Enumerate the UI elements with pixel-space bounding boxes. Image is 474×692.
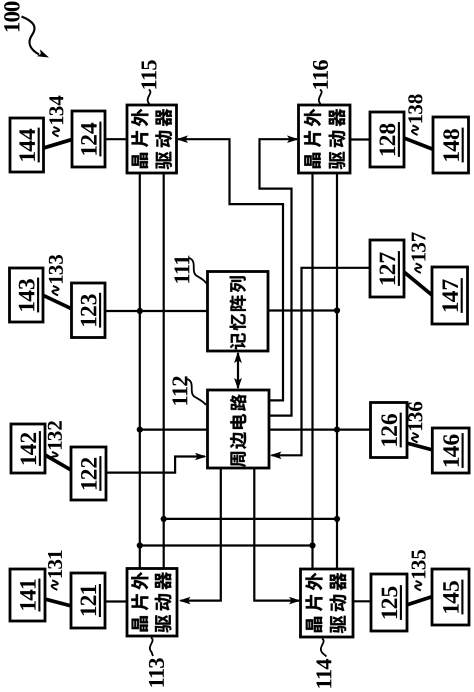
- wire driver 116 to pad 128: [350, 138, 370, 140]
- off-chip driver 113: [127, 569, 177, 637]
- wire pad 123 to memory array 111: [105, 310, 208, 312]
- leader of 113: [150, 638, 153, 657]
- arrowhead into driver 114 left edge: [289, 597, 301, 605]
- wire bus B pin B1 to pin B2: [164, 518, 337, 520]
- label 115: [141, 60, 156, 88]
- wire peripheral 112 bottom to driver 114: [254, 468, 299, 601]
- leader of 114: [321, 639, 327, 657]
- block 143: [10, 268, 44, 322]
- pad 123: [72, 283, 106, 338]
- junction on pin B of 116 at y429: [334, 427, 340, 433]
- label 133: [49, 255, 63, 296]
- wire W1 peripheral 112 right edge to driver 115: [178, 139, 283, 400]
- junction bus B on pin B of 115: [161, 516, 167, 522]
- wire pin B of driver 115 down to driver 113: [163, 173, 165, 569]
- connection 138 between 128 and 148: [404, 138, 434, 150]
- off-chip driver 115: [127, 105, 177, 173]
- arrowhead into 112 right edge from 127: [270, 452, 282, 460]
- block 144: [10, 118, 44, 172]
- wire pad 124 to driver 115: [105, 138, 127, 140]
- block 142: [11, 424, 45, 473]
- leader of 111: [189, 258, 207, 284]
- connection 131 between 141 and 121: [45, 599, 72, 606]
- label 112: [172, 376, 187, 404]
- label 136: [408, 402, 422, 443]
- label 114: [316, 659, 331, 688]
- pad 124: [72, 111, 105, 167]
- junction on pin A of 115 at y429: [137, 427, 143, 433]
- arrowhead into driver 116 left edge: [287, 135, 299, 143]
- wire pad 121 to driver 113: [105, 600, 127, 602]
- wire memory array 111 to pin B of 116: [268, 309, 337, 311]
- label 111: [174, 256, 189, 283]
- label 116: [313, 60, 328, 89]
- block 147: [432, 267, 468, 324]
- pad 126: [371, 403, 408, 458]
- arrowhead down into peripheral 112: [234, 378, 242, 390]
- connection 135 between 125 and 145: [407, 597, 433, 606]
- wire bus C pin A1 to pin A2: [140, 544, 313, 546]
- block 145: [432, 569, 469, 625]
- pad 125: [371, 574, 407, 631]
- connection 136 between 126 and 146: [407, 443, 433, 450]
- wire pad 127 to peripheral 112 right edge: [272, 268, 371, 456]
- arrowhead of 100 leader: [37, 49, 49, 57]
- label 138: [408, 94, 422, 135]
- label 137: [411, 232, 425, 273]
- wire junction A1 to peripheral 112 left edge: [140, 429, 208, 431]
- label 135: [411, 550, 425, 591]
- label 134: [49, 96, 63, 137]
- block 146: [432, 428, 469, 473]
- wire pad 122 to peripheral 112 left edge: [106, 457, 205, 473]
- leader of 115: [148, 90, 151, 105]
- off-chip driver 114: [301, 569, 354, 637]
- wire peripheral 112 right edge to pad 126: [269, 429, 371, 431]
- pad 121: [71, 573, 105, 628]
- arrowhead into driver 115 right edge: [177, 135, 189, 143]
- junction on pin A of 115 at y311: [137, 308, 143, 314]
- junction bus B on pin B of 116: [334, 516, 340, 522]
- wire driver 114 to pad 125: [353, 600, 371, 602]
- pad 127: [370, 240, 404, 297]
- arrowhead up into memory array 111: [234, 352, 242, 364]
- junction on pin B of 116 at y310: [334, 307, 340, 313]
- wire pin A of driver 115 down to driver 113: [139, 173, 141, 569]
- wire pin B of driver 116 down to driver 114: [336, 173, 338, 569]
- wire peripheral 112 bottom to driver 113: [181, 468, 221, 601]
- leader arrow from 100: [22, 17, 40, 55]
- wire W2 peripheral 112 right edge to driver 116: [260, 139, 298, 415]
- connection 132 between 142 and 122: [45, 455, 72, 471]
- label 131: [48, 551, 62, 590]
- label 100: [4, 2, 20, 32]
- connection 137 between 127 and 147: [404, 272, 433, 296]
- arrowhead into 112 left edge from 122: [195, 453, 207, 461]
- label 132: [48, 421, 62, 461]
- label 113: [149, 658, 164, 686]
- connection 134 between 144 and 124: [43, 139, 73, 148]
- connection 133 between 143 and 123: [43, 295, 73, 309]
- arrowhead into driver 113 right edge: [179, 597, 191, 605]
- wire pin A of driver 116 down to driver 114: [311, 173, 313, 569]
- junction bus C on pin A of 116: [309, 542, 315, 548]
- wire memory array 111 to peripheral circuit 112: [237, 353, 239, 388]
- leader of 116: [319, 90, 322, 105]
- leader of 112: [187, 379, 206, 405]
- memory array 111: [208, 272, 269, 352]
- pad 122: [71, 447, 106, 500]
- peripheral circuit 112: [208, 390, 270, 468]
- pad 128: [370, 112, 404, 167]
- off-chip driver 116: [299, 105, 351, 173]
- junction bus C on pin A of 115: [137, 542, 143, 548]
- block 141: [10, 569, 45, 621]
- block 148: [433, 117, 469, 173]
